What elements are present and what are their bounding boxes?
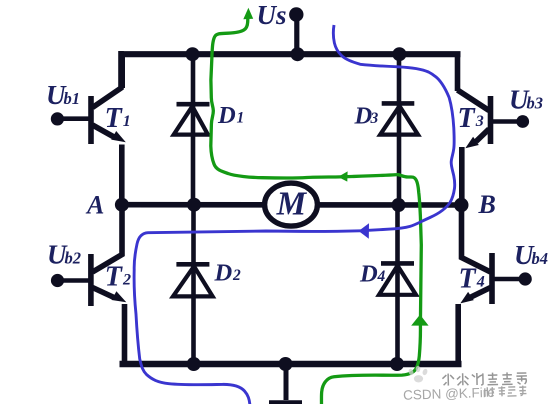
arrow green left above motor	[338, 171, 348, 181]
node Ub4 terminal dot	[519, 272, 532, 285]
wire top-left corner drop	[119, 52, 125, 89]
svg-text:b1: b1	[64, 89, 81, 108]
svg-text:1: 1	[123, 113, 131, 130]
arrow green up at Us	[243, 8, 253, 19]
node Ub2 terminal dot	[51, 274, 64, 287]
node ground junction dot	[279, 357, 293, 371]
label Ub3	[509, 85, 543, 115]
svg-text:B: B	[478, 190, 496, 219]
label T1	[105, 103, 131, 134]
svg-text:3: 3	[370, 110, 379, 127]
wire Us stub	[294, 15, 299, 55]
svg-text:4: 4	[476, 274, 485, 291]
svg-text:T: T	[105, 103, 124, 134]
watermark paw icon	[408, 366, 429, 383]
svg-text:CSDN @K.Fire: CSDN @K.Fire	[403, 385, 495, 403]
wire bottom rail	[120, 361, 462, 368]
diode D3	[380, 51, 418, 207]
wire blue current path	[134, 25, 455, 404]
svg-text:D: D	[214, 260, 233, 287]
wire top-right corner drop	[455, 52, 461, 92]
svg-text:D: D	[359, 260, 378, 287]
svg-text:b4: b4	[532, 249, 548, 268]
transistor T1	[61, 51, 126, 207]
label D3	[354, 102, 379, 129]
svg-text:T: T	[105, 262, 124, 293]
node D3-D4 junction dot	[392, 198, 406, 212]
label D4	[359, 260, 386, 287]
label Ub1	[46, 80, 80, 110]
svg-text:M: M	[276, 185, 308, 222]
svg-text:T: T	[459, 263, 478, 294]
transistor T2	[61, 202, 126, 367]
arrow blue left below motor	[359, 223, 369, 239]
svg-text:2: 2	[232, 267, 241, 284]
node Us terminal dot	[289, 7, 303, 21]
svg-text:1: 1	[237, 110, 245, 127]
node D1 top junction dot	[186, 47, 200, 61]
label D1	[217, 102, 244, 129]
svg-text:T: T	[458, 103, 477, 134]
ground	[269, 364, 302, 403]
svg-text:2: 2	[122, 272, 131, 289]
label Ub2	[47, 240, 81, 270]
diode D4	[379, 203, 416, 367]
transistor T3	[458, 90, 521, 207]
motor M	[265, 183, 318, 226]
svg-text:3: 3	[475, 113, 484, 130]
node B junction dot	[454, 198, 468, 212]
node Ub1 terminal dot	[51, 112, 64, 125]
wire node row A to B	[119, 202, 461, 208]
diode D2	[173, 203, 213, 367]
label T3	[458, 103, 484, 134]
node D3 top junction dot	[392, 47, 406, 61]
label T4	[459, 263, 485, 294]
label T2	[105, 262, 131, 293]
node D1-D2 junction dot	[187, 198, 201, 212]
node A junction dot	[115, 198, 129, 212]
diode D1	[174, 51, 210, 207]
svg-text:b2: b2	[65, 248, 82, 267]
label D2	[214, 260, 242, 287]
wire green current path	[211, 19, 421, 404]
transistor T4	[458, 203, 522, 367]
svg-text:Us: Us	[257, 0, 287, 30]
node D4 bottom junction dot	[390, 357, 404, 371]
label Us	[257, 0, 287, 30]
watermark line 2 CJK imitation strokes	[485, 386, 527, 397]
label Ub4	[514, 240, 548, 270]
node Us rail junction dot	[291, 47, 305, 61]
wire top rail	[120, 51, 461, 57]
svg-text:D: D	[217, 102, 236, 129]
svg-text:b3: b3	[527, 93, 544, 112]
watermark text line 1 (CJK imitation strokes)	[442, 372, 527, 386]
node D2 bottom junction dot	[187, 357, 201, 371]
arrow green up right branch	[411, 315, 428, 326]
svg-text:4: 4	[377, 268, 386, 285]
svg-text:A: A	[85, 190, 104, 219]
node Ub3 terminal dot	[516, 115, 529, 128]
